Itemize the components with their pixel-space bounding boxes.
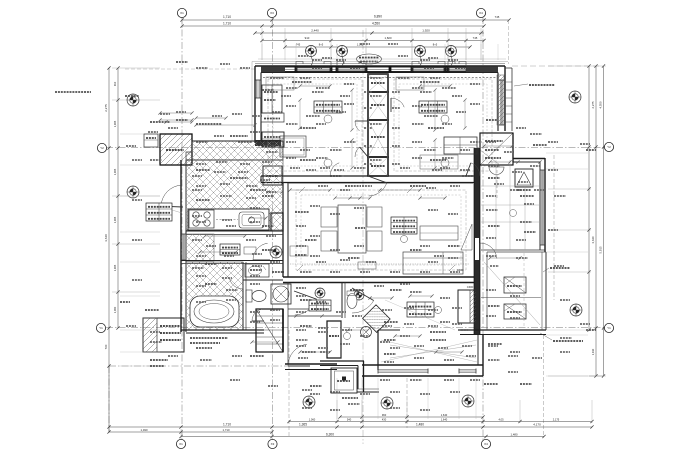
bottom-right corner walls [478,335,483,376]
LDK right wall (thick) [474,148,480,335]
tatami room right wall [540,158,545,252]
grid line Y3 horizontal [106,327,604,329]
top dimension line 1 [180,15,510,22]
washroom floor hatch [186,234,214,261]
diagonal closet at 45deg [363,305,391,333]
svg-text:1,820: 1,820 [385,36,392,40]
closet shelf right bedroom [444,137,477,154]
door arc washroom [294,291,317,315]
interior small dimension marks [158,84,541,353]
terrace deck box 2 [504,304,526,319]
svg-text:910: 910 [113,81,117,86]
svg-text:4,550: 4,550 [372,22,380,26]
refrigerator [271,213,283,231]
extension line x554 [553,155,555,300]
svg-text:CDD: CDD [457,268,464,272]
window top wall 3 [412,67,445,72]
svg-text:1,480: 1,480 [416,423,424,427]
interior dim strings bedrooms [298,88,466,169]
bottom dimension line 2 [287,417,593,423]
svg-text:4,550: 4,550 [599,101,603,108]
vent circle corridor 1 [315,288,325,298]
window tatami right wall [540,170,545,245]
axis marker X1 bottom [176,439,185,448]
wall bottom of bath block [181,330,264,333]
door arc right bedroom entry [391,98,404,112]
TV board [420,226,458,240]
top dimension extension stubs [182,17,481,60]
door arc washroom inner [253,243,270,260]
top dimension line 3 [253,29,484,35]
entry hall wall [340,321,342,358]
svg-text:Y1: Y1 [99,326,103,330]
vent circle stems top [311,57,453,66]
extension line x289 [288,330,290,437]
entry porch L-wall [320,361,379,392]
step box on LDK bottom wall [358,262,376,269]
tatami mat grid [481,160,540,250]
vent circle left lower [127,186,139,198]
svg-text:1,710: 1,710 [223,22,231,26]
extension dash y66 right [512,65,600,67]
svg-text:1,060: 1,060 [309,417,316,421]
svg-text:X4: X4 [484,442,488,446]
LDK info table [391,217,417,234]
svg-text:760: 760 [104,344,108,349]
svg-text:X3: X3 [271,442,275,446]
hall floor [288,282,330,364]
bottom dimension line 3 [107,423,593,429]
tatami bottom edge [481,249,545,251]
svg-text:1,640: 1,640 [441,417,448,421]
svg-text:1,365: 1,365 [113,120,117,127]
vent circle top t3 [415,46,426,57]
svg-text:960: 960 [382,413,387,417]
closet bedroom2 [458,290,476,323]
bottom dimension line 1 [338,413,484,419]
svg-text:910: 910 [305,36,310,40]
axis marker Y2 left [97,143,106,152]
bedroom2 left wall [377,330,379,370]
LDK top interior line [288,183,473,185]
bottom wall right segment [362,365,483,376]
CDD marks [457,268,474,289]
left dimension line 1 [104,66,111,432]
axis marker X4 top [476,8,485,17]
bed left bedroom [280,136,306,157]
washroom bench [244,247,256,254]
window top wall 2 [337,67,366,72]
dining chairs right col [367,207,382,227]
vent circle bottom 2 [381,397,393,409]
wall band below closet strip [255,140,281,146]
grid line X1 vertical [181,17,183,440]
svg-text:1,490: 1,490 [141,428,148,432]
small circle entry [344,333,351,340]
desk right bedroom [420,155,458,169]
svg-text:3,640: 3,640 [104,234,108,242]
exterior wall: right of bedroom block [498,66,505,131]
washroom vent circle [270,246,282,258]
svg-text:X1: X1 [179,442,183,446]
wedge against right wall [461,224,472,250]
terrace mid rail [481,297,541,299]
wall: bedroom/LDK divider [261,176,478,183]
left dimension line 2 [113,66,120,329]
stairs box [256,309,283,352]
svg-text:8+5: 8+5 [433,43,438,47]
bottom-left protrusion box [143,318,184,352]
door arc LDK to tatami [480,243,497,260]
extension lines from walls to dimension strings [120,44,588,419]
sofa [403,252,463,274]
svg-text:1,710: 1,710 [223,423,231,427]
LDK ceiling dashed rect [296,190,466,270]
door arc entry [352,288,374,313]
wall vanity/WC divider [243,279,283,281]
svg-text:2,275: 2,275 [591,101,595,108]
closet column between bedrooms [368,74,388,176]
tatami mat lines [481,160,540,250]
svg-text:6,300: 6,300 [326,432,334,436]
window bottom wall 2 [459,369,476,374]
svg-text:5,915: 5,915 [599,246,603,253]
door arcs closet left bedroom [355,121,368,131]
axis marker X3 top [267,8,276,17]
left dimension stubs [112,68,160,292]
svg-text:1,365: 1,365 [113,264,117,271]
toilet left WC [246,290,266,302]
wall washroom/bath divider [181,260,283,262]
exterior wall: top of bedroom block [252,62,508,73]
terrace diagonal [484,262,540,325]
vent circle top t2 [337,46,348,57]
svg-text:745: 745 [473,36,478,40]
svg-text:1,330: 1,330 [591,348,595,355]
LDK left wall [283,182,288,277]
door arc bath [229,275,243,289]
bath crosshatch floor [186,262,243,330]
vent circle left upper [127,94,139,106]
svg-text:1,480: 1,480 [511,432,518,436]
top dimension line 5 [283,43,471,49]
right dimension line 1 [587,64,590,331]
svg-text:2,275: 2,275 [104,104,108,112]
closet strip left bedroom west wall [261,85,284,122]
label table left of kitchen [146,203,172,221]
vent circle bottom 3 [462,395,474,407]
window right bedroom wall [499,80,504,125]
axis marker X4 bottom [481,439,490,448]
tatami room top wall [513,133,545,162]
grid line Y1 horizontal [106,147,604,149]
svg-text:4,170: 4,170 [533,423,541,427]
door arc WC left [252,309,264,321]
right dimension stubs [548,66,606,376]
right dimension line 2 [591,64,598,377]
svg-text:1,365: 1,365 [299,423,307,427]
dining chairs left col [321,207,337,227]
axis marker Y2 right [604,142,613,151]
overhang dash strip below top wall [263,77,497,79]
bath/WC divider wall [242,262,244,330]
svg-text:745: 745 [495,15,500,19]
window left bedroom wall [256,80,261,98]
door arc kitchen back door [161,185,183,207]
entry porch steps [331,368,357,393]
washbasin bowl below closet [489,167,504,175]
small WC toilet center [347,294,357,309]
upper-left protrusion (hatched) [160,134,192,165]
svg-text:4,05: 4,05 [498,417,504,421]
window sill bumps top wall [296,62,466,67]
window bottom wall 1 [378,369,428,374]
svg-text:X3: X3 [270,11,274,15]
svg-text:1,365: 1,365 [113,216,117,223]
bottom dimension line 4 [107,428,273,434]
vent circle right upper [569,91,581,103]
top dimension line 2 [180,22,485,28]
svg-text:1,710: 1,710 [223,428,230,432]
vent circle under stairs [361,327,372,338]
eave line 2 top [258,58,506,60]
svg-text:1,640: 1,640 [441,413,448,417]
hatched band above kitchen [186,141,283,160]
wall kitchen/washroom divider [186,230,283,232]
svg-text:CDD: CDD [467,285,474,289]
door arc hall/corridor [288,344,310,366]
dotted floor line LDK [290,263,470,265]
top dimension line 4 [260,36,485,42]
terrace outline [487,252,546,330]
pantry box in corridor [263,166,282,185]
annotation text smudges [55,62,596,398]
drying strip top-right [497,68,512,131]
annotation text smudges round2 [126,60,590,404]
svg-text:Y1: Y1 [607,326,611,330]
svg-text:8+5: 8+5 [319,43,324,47]
label aluminum pole with leader [514,84,555,86]
bathtub [190,296,239,327]
svg-text:2,175: 2,175 [553,417,560,421]
svg-text:6,890: 6,890 [374,15,382,19]
axis marker X3 bottom [268,439,277,448]
T.B. shoe box [327,321,341,358]
LDK bottom wall [283,277,478,283]
kitchen counter with stove and sink [188,209,269,230]
vent circle top t4 [446,46,457,57]
title oval stamp [357,54,382,64]
wall bottom of terrace block [460,330,546,335]
door arc right bedroom 2 [466,163,480,176]
wall hall/washroom [341,282,343,318]
vent circle corridor 2 [354,290,364,300]
bedroom2 top wall [378,329,400,331]
annotation text smudges round3 [132,44,572,410]
info table left bedroom [314,101,342,113]
svg-text:X1: X1 [180,11,184,15]
vent circle right lower [570,304,582,316]
svg-text:Y2: Y2 [607,145,611,149]
vent circle top t1 [306,46,317,57]
grid line X3 vertical [272,17,274,440]
wall corridor south [288,315,341,317]
right dimension line 3 [599,64,606,377]
terrace dashed axis [523,253,525,326]
small box upper-left of protrusion [144,134,158,147]
lamp symbol LDK [401,236,408,243]
svg-text:430: 430 [382,417,387,421]
extension line x407 [406,378,408,428]
exterior wall: left of bedroom block [252,62,261,144]
left block outer wall [181,160,186,332]
top wall solid piers [261,66,498,72]
upper-right storage closet [480,133,513,165]
axis marker Y1 left [96,323,105,332]
text block below bath [190,338,228,343]
terrace deck box 1 [504,277,526,293]
bottom wall left segment [285,364,337,370]
dining table [338,205,366,253]
bench left bedroom top [266,77,294,90]
bench right bedroom top [396,77,424,90]
svg-text:745: 745 [296,43,301,47]
svg-text:1,920: 1,920 [422,29,430,33]
bottom dimension line 5 [179,432,545,438]
lamp symbol right bedroom [441,115,449,123]
vent circle bottom 1 [303,396,315,408]
svg-text:X4: X4 [479,11,483,15]
screen label leader [540,333,583,341]
vanity counter washroom [245,264,269,277]
kitchen floor crosshatch [186,160,283,230]
corner slashes LDK ceiling [297,187,455,271]
svg-text:2,440: 2,440 [311,29,319,33]
info table corridor [309,300,331,311]
axis marker X1 top [177,8,186,17]
window top wall 4 [448,67,466,72]
bed bedroom2 diagonal brace lines [390,345,476,358]
tatami closet with triangle [515,169,533,190]
grid line X4 vertical [482,17,484,440]
svg-text:1,365: 1,365 [113,168,117,175]
window kitchen left wall [181,234,186,260]
window top wall 1 [296,67,331,72]
closet left bedroom [262,132,284,147]
svg-text:540: 540 [347,417,352,421]
svg-text:1,710: 1,710 [223,15,231,19]
extension line bottom-left [109,365,296,367]
right dims bottom connector [589,375,604,377]
ceiling line left bedroom (dashed rect) [268,79,362,171]
svg-text:Y2: Y2 [100,146,104,150]
grating label leader [543,268,570,272]
svg-text:3,640: 3,640 [591,236,595,243]
door arc LDK top entrance [368,176,387,196]
labels below protrusion-left [150,359,168,361]
washroom label table [220,244,240,255]
extension dash x508 top [508,20,510,64]
washing machine [271,284,291,304]
grid line X2 vertical (no circle) [362,30,364,444]
door arc left bedroom [330,163,344,176]
ceiling line right bedroom (dashed rect) [394,79,492,171]
lamp symbol left bedroom [324,115,332,123]
axis marker Y1 right [604,323,613,332]
sight diagonals bedroom2 [381,300,477,362]
bottom dimension extension stubs [181,400,592,439]
extension line y69 left [125,68,255,70]
top wall window band with mullions [285,66,466,73]
info table right bedroom [419,101,447,113]
svg-text:1,060: 1,060 [113,306,117,313]
kitchen pass counter [290,246,308,256]
info table bedroom2 [407,302,434,317]
extension dash x543.5 [543,335,545,436]
